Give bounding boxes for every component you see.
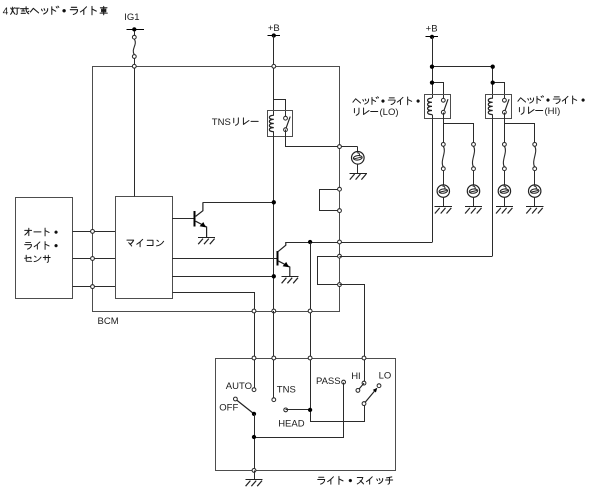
wire fuse to lamp headlight LO left — [443, 171, 445, 185]
node PASS — [316, 376, 346, 387]
svg-text:PASS: PASS — [316, 376, 341, 387]
wire LO coil low side — [432, 115, 434, 243]
junction PASS/ground line — [252, 435, 256, 439]
label TNSリレー — [212, 117, 258, 128]
svg-text:TNS: TNS — [277, 385, 296, 396]
lamp headlight HI left — [498, 185, 510, 197]
dimmer arm with arrow — [365, 388, 377, 403]
fuse headlight LO right — [472, 123, 476, 170]
wire TNS lamp to ground — [357, 164, 359, 173]
ground headlight LO left — [435, 207, 452, 214]
headlight relay LO box — [425, 95, 451, 119]
wire fuse to lamp headlight HI right — [534, 171, 536, 185]
wire lamp to ground headlight HI right — [534, 197, 536, 207]
node OFF — [219, 397, 238, 413]
TNS relay contact bottom — [284, 128, 288, 132]
node HI — [351, 371, 366, 385]
HI relay coil — [488, 98, 492, 114]
svg-text:TNS: TNS — [212, 117, 231, 128]
wire HI relay output — [504, 112, 506, 142]
svg-text:IG1: IG1 — [124, 12, 139, 23]
transistor Q2 — [278, 242, 290, 276]
junction HEAD stub — [308, 408, 312, 412]
microcomputer box — [116, 197, 173, 299]
switch arm OFF — [237, 400, 254, 414]
wire lamp to ground headlight LO right — [473, 197, 475, 207]
wire sensor line 1 — [73, 231, 116, 233]
pin sensor 1 on BCM — [91, 230, 95, 234]
svg-text:AUTO: AUTO — [226, 381, 252, 392]
pin loop1 bottom — [338, 209, 342, 213]
wire lamp to ground headlight LO left — [443, 197, 445, 207]
svg-text:+B: +B — [426, 23, 438, 34]
svg-text:HEAD: HEAD — [278, 418, 305, 429]
pin IG1 on BCM top — [132, 64, 136, 68]
pin switch HEAD — [308, 356, 312, 360]
lamp headlight LO left — [437, 185, 449, 197]
node LO — [377, 371, 391, 388]
wire pivot to ground — [254, 414, 256, 471]
pin LO coil line on BCM right — [338, 240, 342, 244]
pin switch AUTO — [252, 356, 256, 360]
node AUTO — [226, 381, 256, 392]
feedthrough loop 1 in BCM — [320, 190, 340, 211]
node HEAD — [278, 408, 305, 429]
wire TNS node to switch — [273, 311, 275, 400]
junction +B branch LO — [430, 65, 434, 69]
wire microcomputer to Q2 base — [172, 258, 277, 260]
TNS relay box — [268, 111, 293, 137]
ground TNS lamp — [350, 174, 367, 180]
LO relay coil — [428, 98, 432, 114]
TNS relay coil — [269, 115, 273, 131]
pin loop2 bottom — [338, 283, 342, 287]
ground Q2 emitter — [281, 277, 298, 284]
wire HI switch feed — [493, 83, 505, 101]
wire switch to ground — [254, 470, 256, 479]
label マイコン — [127, 239, 164, 246]
pin +B on BCM top — [272, 64, 276, 68]
wire IG1 inside BCM to microcomputer — [134, 66, 136, 196]
pin TNS output on BCM right — [338, 145, 342, 149]
pin AUTO on BCM bottom — [252, 309, 256, 313]
label auto light sensor — [25, 228, 58, 262]
pin loop1 top — [338, 187, 342, 191]
junction HI switch feed — [491, 80, 495, 84]
power feed IG1 — [124, 12, 144, 32]
wire microcomputer to AUTO — [173, 293, 255, 390]
ground headlight HI right — [526, 207, 543, 214]
label ライト・スイッチ — [318, 476, 393, 484]
ground headlight HI left — [496, 207, 513, 214]
svg-text:OFF: OFF — [219, 402, 238, 413]
svg-text:(LO): (LO) — [380, 107, 399, 118]
wire +B branch to HI relay — [433, 67, 493, 99]
fuse headlight HI right — [533, 123, 537, 170]
HI relay contact blade — [504, 99, 509, 112]
svg-text:HI: HI — [351, 371, 361, 382]
label BCM — [98, 316, 119, 327]
junction microcomputer tap — [272, 274, 276, 278]
pin TNS on BCM bottom — [272, 309, 276, 313]
pin switch TNS — [272, 356, 276, 360]
LO relay contact top — [441, 98, 445, 102]
pin loop2 top — [338, 254, 342, 258]
lamp headlight LO right — [467, 185, 479, 197]
pin HEAD on BCM bottom — [308, 309, 312, 313]
wire lamp to ground headlight HI left — [504, 197, 506, 207]
fuse F-IG1 — [132, 32, 136, 59]
fuse headlight HI left — [503, 123, 507, 170]
ground headlight LO right — [465, 207, 482, 214]
wire fuse to lamp headlight HI left — [504, 171, 506, 185]
LO relay contact blade — [443, 99, 448, 112]
title 4灯式ヘッド・ライト車 — [3, 6, 108, 17]
svg-text:(HI): (HI) — [545, 106, 561, 117]
junction Q1 collector / TNS coil — [272, 200, 276, 204]
HI relay contact bottom — [503, 110, 507, 114]
node TNS — [272, 385, 296, 402]
wire LO switch feed — [433, 83, 444, 101]
wire HI output branch — [505, 124, 535, 143]
LO relay contact bottom — [441, 110, 445, 114]
wire LO output branch — [444, 124, 474, 143]
power feed +B (BCM) — [268, 23, 280, 37]
wire BCM to dimmer HI — [340, 285, 365, 384]
TNS relay contact blade — [286, 117, 291, 130]
svg-text:+B: +B — [268, 23, 280, 34]
BCM box — [93, 67, 340, 312]
label ヘッド・ライト・リレー (HI) — [518, 96, 584, 117]
wire TNS relay output — [286, 130, 358, 147]
wire PASS to ground line — [255, 383, 344, 438]
feedthrough loop 2 in BCM — [318, 257, 340, 285]
fuse headlight LO left — [441, 123, 445, 170]
wire +B down to TNS relay coil — [273, 36, 275, 116]
TNS relay contact top — [284, 116, 288, 120]
wire +B to LO relay — [432, 37, 434, 98]
dimmer HI contact — [356, 383, 364, 392]
wire to TNS lamp — [357, 147, 359, 152]
junction +B branch HI — [491, 65, 495, 69]
wire LO relay output — [443, 112, 445, 142]
label ヘッド・ライト・リレー (LO) — [353, 97, 419, 118]
ground Q1 emitter — [198, 238, 215, 245]
wire HEAD stub — [286, 409, 310, 411]
ground light switch — [245, 480, 262, 487]
wire microcomputer tap — [172, 276, 274, 278]
wire IG1 to BCM pin — [134, 58, 136, 66]
wire microcomputer to Q1 base — [172, 218, 194, 220]
svg-text:LO: LO — [379, 371, 392, 382]
wire sensor line 3 — [73, 286, 116, 288]
svg-text:BCM: BCM — [98, 316, 119, 327]
power feed +B (relays) — [426, 23, 438, 39]
pin sensor 2 on BCM — [91, 257, 95, 261]
lamp headlight HI right — [529, 185, 541, 197]
pin switch ground — [252, 469, 256, 473]
pin switch HI — [362, 356, 366, 360]
wire HI coil low side — [492, 115, 494, 257]
svg-text:4: 4 — [3, 7, 9, 18]
lamp TNS — [352, 152, 365, 165]
wire Q1 collector to TNS coil node — [203, 202, 274, 204]
HI relay contact top — [503, 98, 507, 102]
auto light sensor box — [16, 198, 73, 299]
pin sensor 3 on BCM — [91, 285, 95, 289]
transistor Q1 — [195, 202, 207, 237]
wire fuse to lamp headlight LO right — [473, 171, 475, 185]
wire HEAD line — [311, 243, 365, 422]
light switch box — [216, 359, 396, 471]
wire TNS coil low side — [273, 132, 275, 311]
junction switch arm pivot — [252, 412, 256, 416]
wire Q2 collector line — [286, 242, 432, 244]
wire TNS relay switch feed — [274, 100, 286, 119]
wire HI coil to BCM — [340, 256, 493, 258]
junction LO switch feed — [430, 80, 434, 84]
dimmer arm pivot — [362, 402, 366, 406]
headlight relay HI box — [486, 95, 512, 119]
wire sensor line 2 — [73, 258, 116, 260]
junction Q2 collector / HEAD line — [308, 240, 312, 244]
